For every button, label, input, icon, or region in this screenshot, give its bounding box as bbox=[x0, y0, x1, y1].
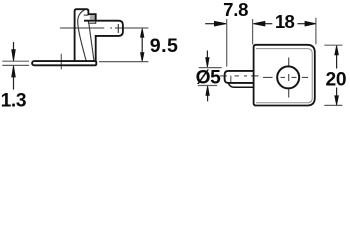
svg-text:9.5: 9.5 bbox=[150, 35, 178, 57]
svg-text:18: 18 bbox=[275, 11, 295, 32]
svg-text:Ø5: Ø5 bbox=[196, 68, 222, 89]
svg-text:20: 20 bbox=[326, 69, 347, 90]
svg-text:7.8: 7.8 bbox=[223, 0, 248, 20]
svg-text:1.3: 1.3 bbox=[1, 91, 27, 112]
